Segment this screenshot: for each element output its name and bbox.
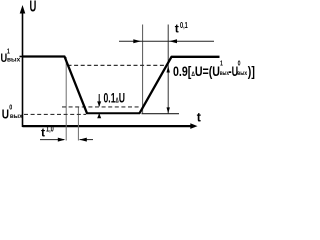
svg-text:0.1ΔU: 0.1ΔU xyxy=(104,92,125,106)
svg-text:0.9[ΔU=(U: 0.9[ΔU=(U xyxy=(173,63,220,79)
svg-text:0: 0 xyxy=(238,60,241,68)
svg-text:U: U xyxy=(2,109,9,122)
svg-text:)]: )] xyxy=(248,63,255,79)
svg-text:0,1: 0,1 xyxy=(180,22,188,30)
svg-text:U: U xyxy=(30,0,37,15)
svg-text:вых: вых xyxy=(10,113,23,120)
svg-text:t: t xyxy=(175,22,179,36)
svg-text:0: 0 xyxy=(9,104,12,112)
svg-text:1: 1 xyxy=(7,48,10,56)
svg-text:1: 1 xyxy=(220,60,223,68)
svg-text:вых: вых xyxy=(7,56,20,63)
svg-text:1,0: 1,0 xyxy=(46,126,54,134)
svg-text:t: t xyxy=(41,126,45,140)
svg-text:вых: вых xyxy=(237,70,248,77)
